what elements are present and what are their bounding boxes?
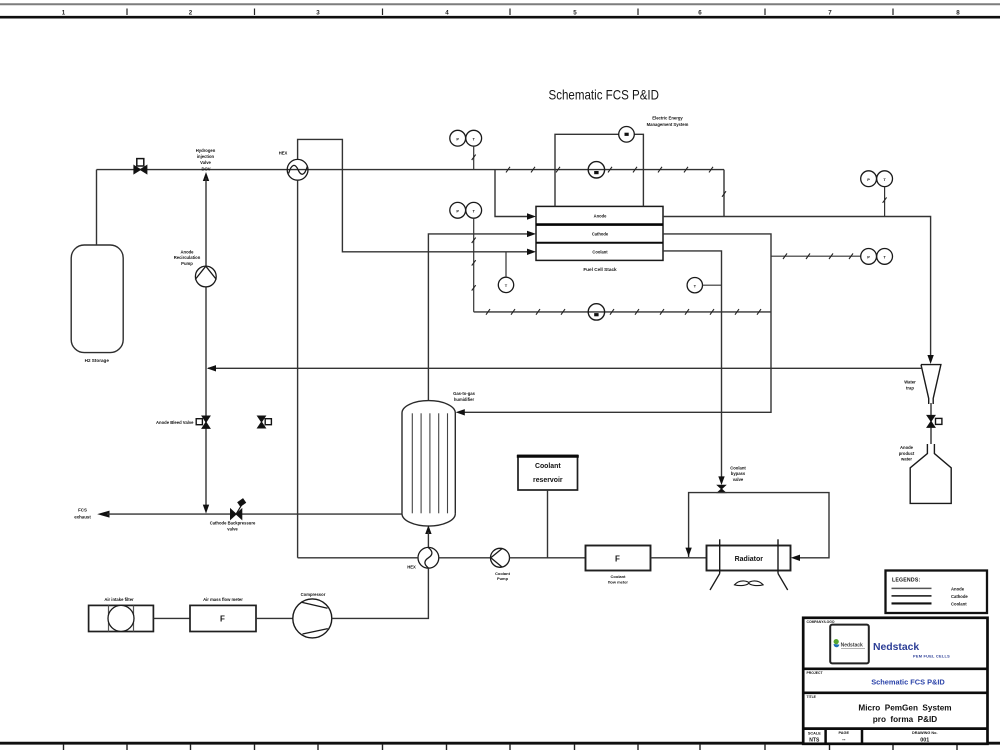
bottom row cell divider 1 xyxy=(824,729,827,744)
svg-text:Coolant: Coolant xyxy=(730,465,746,470)
wire pair2 drop to cathode DP line xyxy=(473,218,475,312)
coolant bypass valve label xyxy=(730,465,746,482)
instrument pair P T anode inlet xyxy=(450,130,482,146)
svg-text:HEX: HEX xyxy=(279,151,288,156)
svg-text:water: water xyxy=(900,457,912,462)
cathode backpressure valve label xyxy=(210,520,256,531)
svg-text:injection: injection xyxy=(197,154,215,159)
anode bleed valve xyxy=(196,416,210,428)
anode product water bottle xyxy=(910,444,951,503)
arrow cathode into humidifier xyxy=(456,409,465,415)
wire reservoir drop xyxy=(547,490,549,558)
svg-text:bypass: bypass xyxy=(731,471,746,476)
svg-text:Electric Energy: Electric Energy xyxy=(652,116,683,121)
coolant reservoir box xyxy=(517,455,579,490)
wire anode DP drop xyxy=(723,170,725,217)
humidifier label xyxy=(453,391,476,402)
svg-text:FCS: FCS xyxy=(78,507,87,512)
svg-text:valve: valve xyxy=(227,526,238,531)
coolant outlet temperature instrument xyxy=(687,278,702,293)
wire HEX2 to humidifier xyxy=(427,532,429,547)
svg-text:Anode Bleed Valve: Anode Bleed Valve xyxy=(156,420,194,425)
svg-text:P: P xyxy=(867,177,870,182)
title block project divider xyxy=(803,667,987,670)
svg-text:Air intake filter: Air intake filter xyxy=(104,597,134,602)
wire coolant HEX1 down vertical xyxy=(297,180,299,558)
arrow return to recirculation line xyxy=(207,365,216,371)
wire temp instrument to coolant outlet xyxy=(703,284,722,286)
fuel cell stack anode divider xyxy=(536,223,663,226)
cathode DP transmitter xyxy=(588,304,604,320)
arrow cathode into stack xyxy=(527,231,536,237)
svg-text:Water: Water xyxy=(904,380,916,385)
humidifier internal tubes xyxy=(412,413,447,513)
svg-text:Nedstack: Nedstack xyxy=(841,642,863,648)
svg-text:Anode: Anode xyxy=(900,445,914,450)
svg-text:Coolant: Coolant xyxy=(535,463,561,470)
svg-text:HEX: HEX xyxy=(407,565,416,570)
air mass flow meter box xyxy=(190,605,256,631)
svg-text:Nedstack: Nedstack xyxy=(873,642,919,653)
FCS exhaust label xyxy=(74,507,91,519)
svg-text:DRAWING No.: DRAWING No. xyxy=(912,731,938,735)
svg-text:Cathode: Cathode xyxy=(592,232,609,237)
fuel cell stack cathode divider xyxy=(536,242,663,244)
heat exchanger HEX1 xyxy=(287,159,308,180)
svg-text:flow meter: flow meter xyxy=(608,579,628,584)
svg-text:F: F xyxy=(220,615,225,624)
svg-text:Coolant: Coolant xyxy=(495,571,511,576)
cathode outlet PT branch ticked xyxy=(771,255,861,257)
svg-text:exhaust: exhaust xyxy=(74,515,91,520)
floating service valve xyxy=(258,416,272,428)
svg-text:Management System: Management System xyxy=(647,122,689,127)
frame bottom black border line xyxy=(0,742,1000,745)
svg-text:5: 5 xyxy=(573,10,577,17)
arrow into hydrogen injection point xyxy=(203,172,209,181)
nedstack small logo icon xyxy=(834,639,865,648)
wire coolant outlet xyxy=(663,251,722,479)
svg-text:4: 4 xyxy=(445,10,449,17)
svg-text:1: 1 xyxy=(62,10,66,17)
wire anode recirculation vertical xyxy=(205,178,207,507)
frame top black border line xyxy=(0,16,1000,19)
title block title divider xyxy=(803,691,987,694)
air intake filter xyxy=(89,605,154,631)
gas-to-gas humidifier vessel xyxy=(402,401,455,526)
wire cathode outlet xyxy=(463,234,771,412)
coolant flow meter box xyxy=(586,546,651,571)
water trap funnel xyxy=(921,365,941,404)
heat exchanger HEX2 xyxy=(418,547,439,568)
coolant bypass valve xyxy=(718,485,726,492)
svg-text:Radiator: Radiator xyxy=(735,556,764,563)
wire coolant HEX2 to pump xyxy=(439,557,491,559)
scale cell xyxy=(808,732,821,744)
svg-text:H2 Storage: H2 Storage xyxy=(85,358,110,363)
svg-text:PAGE: PAGE xyxy=(839,731,850,735)
logo box xyxy=(830,625,869,664)
radiator legs xyxy=(710,574,720,591)
svg-text:valve: valve xyxy=(733,477,744,482)
wire exhaust line to humidifier xyxy=(107,513,402,515)
svg-text:DOV: DOV xyxy=(201,166,210,171)
wire hydrogen from tank up xyxy=(96,170,98,245)
svg-text:3: 3 xyxy=(316,10,320,17)
frame bottom zone ticks xyxy=(64,744,958,750)
svg-text:Fuel Cell Stack: Fuel Cell Stack xyxy=(583,267,617,272)
wire bypass header xyxy=(689,493,829,558)
frame top grey edge line xyxy=(0,3,1000,5)
H2 storage tank xyxy=(71,245,123,353)
svg-text:8: 8 xyxy=(956,10,960,17)
svg-text:Pump: Pump xyxy=(497,576,509,581)
coolant inlet temperature instrument xyxy=(498,277,513,292)
svg-text:Valve: Valve xyxy=(200,160,211,165)
svg-text:Schematic FCS P&ID: Schematic FCS P&ID xyxy=(549,87,660,102)
svg-text:trap: trap xyxy=(906,385,914,390)
wire meter to compressor xyxy=(256,617,293,619)
instrument pair P T anode outlet xyxy=(861,171,893,187)
svg-text:6: 6 xyxy=(698,10,702,17)
arrow FCS exhaust xyxy=(97,511,109,518)
wire pair3 to anode outlet xyxy=(884,187,886,217)
arrow into coolant bypass valve xyxy=(718,476,724,485)
svg-text:--: -- xyxy=(842,737,846,743)
arrow bypass down to pump line xyxy=(685,548,691,557)
svg-text:LEGENDS:: LEGENDS: xyxy=(892,577,920,583)
title block bottom row divider xyxy=(803,727,987,730)
svg-text:Pump: Pump xyxy=(181,261,193,266)
svg-text:TITLE: TITLE xyxy=(807,695,817,699)
svg-text:Schematic FCS P&ID: Schematic FCS P&ID xyxy=(871,678,945,687)
wire F meter to radiator xyxy=(651,557,707,559)
wire anode outlet xyxy=(663,217,931,358)
svg-text:Recirculation: Recirculation xyxy=(174,255,201,260)
wire pump to F meter xyxy=(510,557,586,559)
arrow into radiator right xyxy=(791,555,800,561)
svg-text:product: product xyxy=(899,451,915,456)
arrow anode into stack xyxy=(527,213,536,219)
coolant pump P2 xyxy=(491,548,510,567)
svg-text:reservoir: reservoir xyxy=(533,477,563,484)
title block outer frame xyxy=(803,618,987,744)
electric meter instrument xyxy=(619,127,635,143)
wire coolant bottom line left xyxy=(298,557,418,559)
legend cathode line sample xyxy=(892,595,932,597)
svg-text:PEM FUEL CELLS: PEM FUEL CELLS xyxy=(913,654,950,659)
svg-text:Coolant: Coolant xyxy=(951,601,967,606)
instrument pair P T cathode outlet xyxy=(861,249,893,265)
arrow into water trap xyxy=(927,355,933,364)
wire coolant HEX1 top loop xyxy=(298,139,528,251)
svg-text:Cathode Backpressure: Cathode Backpressure xyxy=(210,520,256,525)
anode DP transmitter xyxy=(588,162,604,178)
radiator fan xyxy=(735,581,764,586)
svg-text:Hydrogen: Hydrogen xyxy=(196,148,216,153)
svg-text:Coolant: Coolant xyxy=(611,574,627,579)
svg-text:Gas-to-gas: Gas-to-gas xyxy=(453,391,476,396)
instrument pair P T cathode xyxy=(450,202,482,218)
svg-text:P: P xyxy=(456,136,459,141)
svg-text:F: F xyxy=(615,554,620,563)
bottom row cell divider 2 xyxy=(861,729,864,744)
legend anode line sample xyxy=(892,587,932,589)
page cell xyxy=(839,731,850,743)
wire hydrogen drop to anode inlet xyxy=(495,170,528,217)
arrow air into humidifier bottom xyxy=(425,525,431,534)
svg-text:Anode: Anode xyxy=(594,213,607,218)
svg-text:Compressor: Compressor xyxy=(301,592,326,597)
anode DP signal line ticked xyxy=(495,169,724,171)
fuel cell stack row labels xyxy=(592,213,609,254)
svg-text:pro forma P&ID: pro forma P&ID xyxy=(873,715,938,724)
wire temp instrument to coolant inlet xyxy=(505,252,507,277)
wire anode water return line xyxy=(208,367,922,369)
svg-text:PROJECT: PROJECT xyxy=(807,671,824,675)
anode recirculation pump label xyxy=(174,250,201,266)
wire electric loop right xyxy=(634,134,643,206)
svg-text:7: 7 xyxy=(828,10,832,17)
wire pair1 to anode line xyxy=(473,146,475,170)
svg-text:2: 2 xyxy=(189,10,193,17)
anode product water label xyxy=(899,445,915,462)
svg-text:NTS: NTS xyxy=(809,737,820,743)
svg-text:COMPANY/LOGO: COMPANY/LOGO xyxy=(807,620,835,624)
anode recirculation pump P1 xyxy=(195,266,216,287)
drawing number cell xyxy=(912,731,938,743)
coolant flow meter label xyxy=(608,574,628,584)
legend coolant line sample xyxy=(892,602,932,604)
electric energy management system label xyxy=(647,116,689,127)
svg-text:Cathode: Cathode xyxy=(951,594,968,599)
coolant pump label xyxy=(495,571,511,581)
wire electric loop xyxy=(555,134,619,206)
radiator box xyxy=(707,539,791,573)
anode drain valve xyxy=(927,415,942,427)
arrow coolant into stack xyxy=(527,249,536,255)
svg-text:P: P xyxy=(867,255,870,260)
svg-text:P: P xyxy=(456,209,459,214)
legends box xyxy=(886,571,988,614)
fuel cell stack body xyxy=(536,206,663,260)
svg-text:Micro PemGen System: Micro PemGen System xyxy=(858,703,951,712)
svg-text:Anode: Anode xyxy=(180,250,194,255)
svg-text:Air mass flow meter: Air mass flow meter xyxy=(203,597,243,602)
wire trap to drain valve xyxy=(930,403,932,444)
wire hydrogen main horizontal xyxy=(97,169,496,171)
water trap label xyxy=(904,380,916,391)
frame top zone numbers xyxy=(62,10,961,17)
compressor xyxy=(293,599,332,638)
wire compressor to HEX2 xyxy=(332,568,429,618)
svg-text:SCALE: SCALE xyxy=(808,732,821,736)
cathode DP signal line ticked xyxy=(474,311,771,313)
hydrogen injection valve label xyxy=(196,148,216,171)
svg-text:001: 001 xyxy=(920,738,929,744)
cathode backpressure valve xyxy=(231,499,246,519)
svg-text:Coolant: Coolant xyxy=(592,250,608,255)
svg-text:humidifier: humidifier xyxy=(454,397,475,402)
arrow anode down to exhaust line xyxy=(203,505,209,514)
frame top zone ticks xyxy=(127,9,893,16)
wire cathode supply to stack xyxy=(428,234,528,401)
hydrogen supply valve xyxy=(134,159,147,174)
svg-text:Anode: Anode xyxy=(951,586,965,591)
wire filter to air flow meter xyxy=(153,617,190,619)
